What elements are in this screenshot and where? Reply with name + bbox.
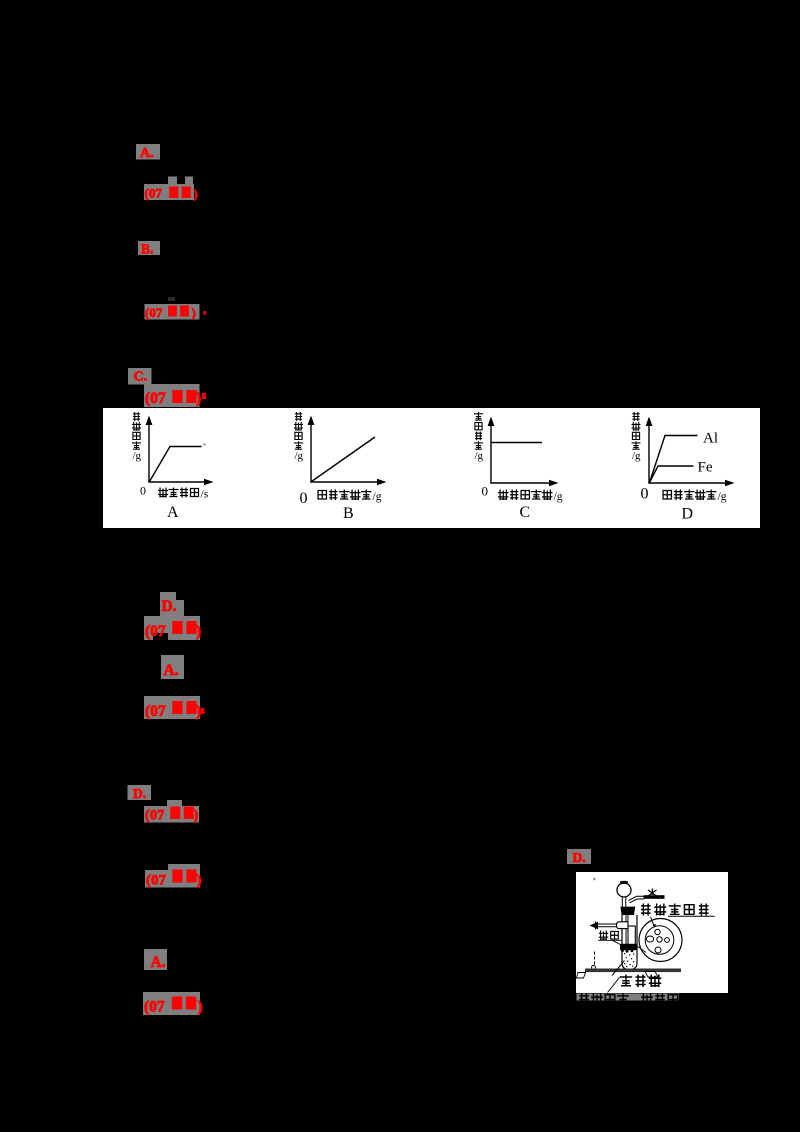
answer mark A. (question 5) xyxy=(161,655,184,679)
acid liquid stipple xyxy=(624,953,634,967)
svg-text:(07: (07 xyxy=(145,703,166,720)
svg-text:/g: /g xyxy=(295,450,304,462)
pinch clamp xyxy=(644,889,665,899)
bottom text bar (selected line partially hidden) xyxy=(577,994,680,1006)
answer mark D. (question 7, near figure) xyxy=(567,849,591,865)
white figure strip with four graphs xyxy=(103,408,760,528)
svg-text:): ) xyxy=(198,999,203,1016)
svg-text:/g: /g xyxy=(373,491,382,503)
svg-text:/g: /g xyxy=(554,491,563,503)
graph A x-axis label (heating time /s) xyxy=(158,488,209,501)
answer mark B. (question 2) xyxy=(138,241,160,257)
source tag (07 dongying) q4 xyxy=(144,616,201,640)
stand rod xyxy=(592,952,596,970)
funnel bulb xyxy=(617,881,631,897)
svg-text:0: 0 xyxy=(140,484,146,498)
graph D axes xyxy=(646,417,735,487)
svg-text:0: 0 xyxy=(641,486,649,503)
dilute sulfuric acid label xyxy=(608,960,662,992)
rubber stopper xyxy=(620,907,635,915)
svg-text:0: 0 xyxy=(300,490,308,507)
connector tube to circle xyxy=(637,946,646,953)
graph D curve Al xyxy=(650,436,698,483)
delivery tube to clamp xyxy=(629,896,645,903)
graph A curve: rise then plateau xyxy=(150,447,202,482)
svg-text:0: 0 xyxy=(482,484,489,499)
perforated plate label xyxy=(641,904,715,917)
svg-text:(07: (07 xyxy=(145,623,166,640)
test tube walls xyxy=(622,915,637,970)
zinc granules on plate (black band) xyxy=(620,944,637,953)
svg-text:): ) xyxy=(196,703,201,720)
gas outlet tube with arrow xyxy=(590,922,617,930)
graph C axes xyxy=(488,417,559,487)
graph A axes xyxy=(146,416,214,486)
answer mark A. (question 1) xyxy=(136,144,160,161)
svg-text:): ) xyxy=(194,186,198,201)
source tag (07 yangzhou) q8 xyxy=(143,992,203,1016)
graph B: y-axis label xyxy=(294,412,304,462)
svg-text:A.: A. xyxy=(140,146,154,161)
svg-text:Fe: Fe xyxy=(698,460,713,476)
plate holes xyxy=(646,929,669,953)
svg-text:A: A xyxy=(167,504,179,521)
svg-text:): ) xyxy=(196,623,201,640)
side elbow tube xyxy=(617,922,636,945)
source tag (07 maoming) q1 xyxy=(144,177,198,202)
svg-text:(07: (07 xyxy=(146,873,166,889)
svg-text:D.: D. xyxy=(162,598,177,615)
svg-text:D.: D. xyxy=(133,786,146,801)
svg-text:/g: /g xyxy=(133,450,142,462)
svg-text:(07: (07 xyxy=(145,186,163,201)
source tag (07 maoming) q2 xyxy=(145,304,207,320)
graph C curve: horizontal line xyxy=(492,442,543,444)
svg-text:C: C xyxy=(520,504,531,521)
answer mark A. (question 8) xyxy=(144,949,167,971)
stand base xyxy=(577,969,682,979)
svg-text:A.: A. xyxy=(151,954,166,971)
svg-text:(07: (07 xyxy=(145,808,164,824)
svg-text:): ) xyxy=(194,808,199,824)
svg-text:A.: A. xyxy=(164,662,179,679)
graph A: y-axis label (gas mass /g) xyxy=(132,412,142,462)
svg-text:C.: C. xyxy=(134,370,148,385)
graph B x-axis label (dilute hydrochloric acid mass /g) xyxy=(317,490,382,504)
magnifier outer circle xyxy=(639,919,682,962)
funnel neck xyxy=(622,896,626,907)
svg-text:Al: Al xyxy=(703,431,718,447)
svg-text:D.: D. xyxy=(573,850,586,865)
svg-text:B: B xyxy=(343,505,354,522)
source tag (07 shaoxing) q7 xyxy=(145,864,202,889)
graph B curve: straight rising line xyxy=(312,437,376,482)
svg-text:): ) xyxy=(197,873,202,889)
faint speck above q2 tag xyxy=(168,297,175,301)
svg-text:): ) xyxy=(192,305,196,320)
label leader arrow to circle xyxy=(651,917,657,928)
svg-text:/g: /g xyxy=(475,450,484,462)
svg-text:D: D xyxy=(682,506,694,523)
graph B axes xyxy=(308,416,387,486)
zinc granules label xyxy=(598,931,622,946)
graph C: y-axis label (solute mass /g) xyxy=(474,412,484,462)
graph D: y-axis label xyxy=(632,412,642,462)
source tag (07 maoming) q3 xyxy=(144,384,206,407)
svg-text:(07: (07 xyxy=(145,390,166,407)
answer mark D. (question 6) xyxy=(128,785,152,801)
svg-text:B.: B. xyxy=(141,242,153,257)
experiment figure white box xyxy=(576,872,728,993)
svg-text:(07: (07 xyxy=(145,305,163,320)
funnel stem inside tube xyxy=(626,915,628,944)
svg-text:/s: /s xyxy=(201,489,209,501)
magnifier inner circle (plate) xyxy=(645,926,674,955)
svg-text:/g: /g xyxy=(632,450,641,462)
graph D x-axis label (dilute hydrochloric acid mass /g) xyxy=(662,490,727,504)
svg-text:(07: (07 xyxy=(144,999,165,1016)
graph C x-axis label (calcium oxide mass /g) xyxy=(498,490,563,504)
source tag (07 fuzhou) q6 xyxy=(144,800,199,824)
answer mark C. (question 3) xyxy=(128,368,152,385)
source tag (07 dezhou) q5 xyxy=(144,696,205,720)
speck at plateau end xyxy=(203,444,206,446)
graph D curve Fe xyxy=(650,466,694,483)
speck xyxy=(593,878,596,881)
svg-text:/g: /g xyxy=(718,491,727,503)
svg-text:): ) xyxy=(196,390,201,407)
answer mark D. (question 4) xyxy=(160,592,184,616)
